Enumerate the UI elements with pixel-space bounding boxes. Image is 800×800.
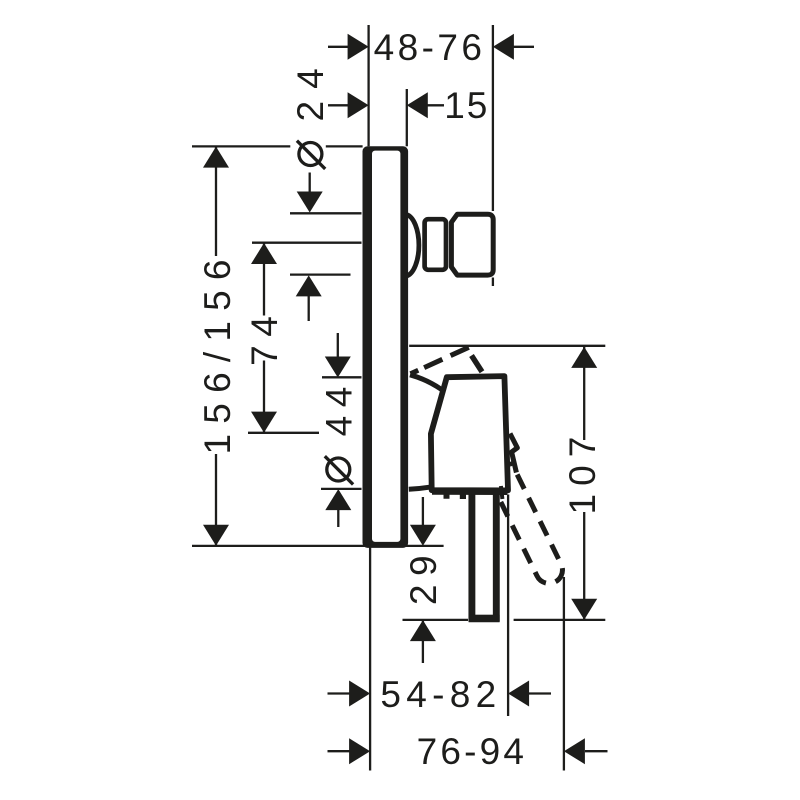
arrow 107 top <box>571 347 597 368</box>
54-82 arrow tails <box>328 692 552 694</box>
156/156 dimension shaft <box>215 147 217 546</box>
svg-text:107: 107 <box>562 429 603 515</box>
Ø24 dimension shafts <box>309 173 310 322</box>
extension line plate front (15 right) <box>406 89 408 146</box>
lever body bottom bumps <box>444 493 467 499</box>
arrowheads <box>203 34 597 764</box>
extension line plate top (156/156) <box>192 145 363 147</box>
extension line lever axis (74 bottom) <box>248 432 319 434</box>
svg-text:74: 74 <box>244 308 285 366</box>
arrow Ø44 bottom <box>325 489 351 510</box>
76-94 arrow tails <box>328 750 608 752</box>
extension line lever raised top (107 top) <box>409 345 605 347</box>
arrow 54-82 left <box>349 681 370 707</box>
107 dimension shaft <box>583 346 585 620</box>
diameter symbol for Ø44 <box>325 456 353 484</box>
svg-text:24: 24 <box>290 56 331 121</box>
lever pipe bottom cap <box>469 615 500 622</box>
lever cartridge dome bottom curve <box>409 487 430 489</box>
Ø44 dimension shafts <box>337 333 340 527</box>
svg-text:48-76: 48-76 <box>374 27 486 68</box>
shut-off handle dome <box>407 215 419 277</box>
lever pivot stub squiggle <box>510 434 517 473</box>
arrow 15 right <box>407 92 428 118</box>
dimension thin lines <box>192 25 608 771</box>
extension line grip bottom (Ø24) <box>290 273 351 275</box>
lever lowered position dashed outline <box>501 462 563 584</box>
74 dimension shaft <box>263 243 265 433</box>
arrow 74 bottom <box>251 412 277 433</box>
arrow Ø24 bottom <box>296 275 322 296</box>
extension line lever lowered front (76-94 right) <box>563 577 565 771</box>
arrow 74 top <box>251 243 277 264</box>
arrow 76-94 left <box>349 738 370 764</box>
48-76 arrow tails <box>328 46 534 48</box>
extension line grip top (Ø24) <box>290 212 362 214</box>
extension line plate bottom (156/156, 29 top) <box>192 545 444 547</box>
lever body <box>431 376 508 490</box>
svg-text:76-94: 76-94 <box>417 731 528 772</box>
shut-off handle sleeve <box>425 219 446 270</box>
29 dimension shafts <box>422 497 424 663</box>
extension line grip front (48-76 right) <box>492 25 494 286</box>
svg-text:44: 44 <box>318 378 359 436</box>
extension line plate back (48-76 left / 15 left) <box>367 25 369 146</box>
extension line shut-off axis (74 top) <box>252 242 362 244</box>
shut-off handle grip <box>451 214 493 275</box>
extension line lever dome top (Ø44) <box>322 376 362 378</box>
lever raised position end cap <box>472 356 483 372</box>
extension line lever dome bottom (Ø44) <box>321 488 362 490</box>
arrow 156/156 bottom <box>203 525 229 546</box>
wall plate inner face (white) <box>372 151 400 542</box>
extension line pipe bottom (29 bottom, 107 bottom) <box>403 619 606 621</box>
lever lowered first dash near pipe <box>501 486 503 499</box>
arrow 76-94 right <box>564 738 585 764</box>
arrow 29 top <box>410 525 436 546</box>
lever body bottom edge <box>432 488 508 495</box>
arrow 156/156 top <box>203 147 229 168</box>
svg-text:29: 29 <box>403 547 444 605</box>
diameter symbol for Ø24 <box>297 141 325 169</box>
wall plate escutcheon (side view, filled) <box>363 146 409 548</box>
15 arrow tails <box>328 104 444 106</box>
svg-text:54-82: 54-82 <box>380 674 501 715</box>
lever cartridge dome top curve <box>410 375 442 390</box>
arrow 29 bottom <box>410 620 436 641</box>
arrow 48-76 right <box>493 34 514 60</box>
lever handle pipe (pointing down) <box>472 494 496 619</box>
arrow 48-76 left <box>348 34 369 60</box>
extension line pipe back (54-82 left / 76-94 left) <box>369 546 371 771</box>
arrow 15 left <box>348 92 369 118</box>
lever raised position dashed line <box>411 347 470 374</box>
svg-text:15: 15 <box>444 85 489 126</box>
extension line lever front (54-82 right) <box>507 495 509 717</box>
arrow 107 bottom <box>571 599 597 620</box>
arrow Ø24 top <box>297 192 323 213</box>
arrow Ø44 top <box>325 357 351 378</box>
arrow 54-82 right <box>508 681 529 707</box>
svg-text:156/156: 156/156 <box>197 249 238 454</box>
